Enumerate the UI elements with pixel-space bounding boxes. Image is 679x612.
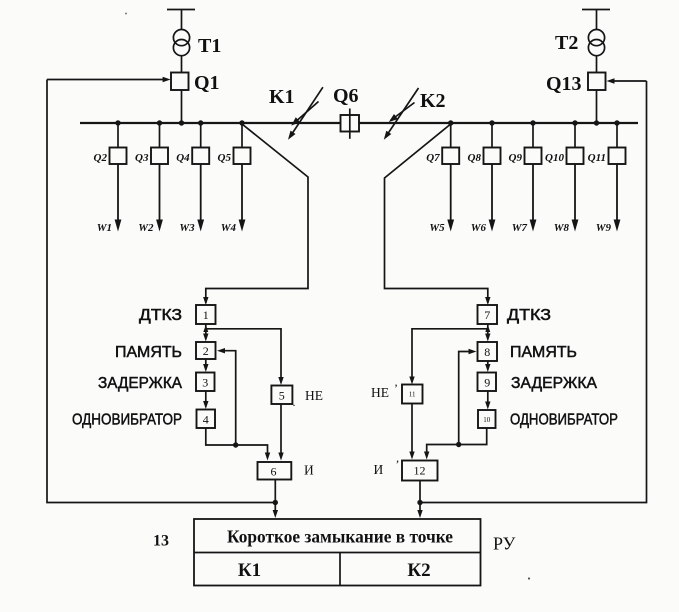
digit 5 — [279, 389, 285, 403]
wire T2 to Q13 — [596, 56, 598, 73]
transformer T1 — [173, 29, 189, 55]
block 12 AND — [402, 461, 438, 481]
svg-text:ОДНОВИБРАТОР: ОДНОВИБРАТОР — [510, 412, 618, 429]
digit 7 — [484, 308, 490, 322]
digit 4 — [203, 413, 209, 427]
svg-text:K2: K2 — [420, 90, 446, 112]
svg-text:7: 7 — [484, 308, 490, 322]
transformer T2 — [588, 29, 604, 55]
feedback wire to block 2 — [217, 348, 236, 445]
branch to block 5 — [206, 329, 284, 385]
svg-text:K1: K1 — [269, 86, 295, 108]
block 7 DTKZ — [478, 305, 498, 324]
wire 7 to 8 — [485, 324, 490, 342]
fault arrow K1a — [288, 87, 323, 140]
switch Q8 — [484, 148, 501, 165]
label Q1 — [194, 72, 220, 94]
label PAMYAT left — [115, 344, 182, 361]
arrow into RU left — [273, 503, 278, 519]
label Q6 — [333, 85, 359, 107]
digit 11 — [409, 391, 416, 399]
feeder stub Q4 — [200, 123, 202, 148]
label W6 — [471, 222, 487, 234]
svg-text:2: 2 — [203, 344, 209, 358]
svg-text:И: И — [374, 462, 384, 477]
tick NE right — [394, 381, 398, 395]
feeder line W9 — [614, 164, 621, 232]
feedback wire to block 8 — [459, 349, 477, 445]
junction Q2-bus — [115, 120, 120, 125]
block 4 ODNOVIBRATOR — [197, 410, 216, 429]
feeder stub Q9 — [532, 123, 534, 148]
label Q9 — [509, 152, 523, 164]
label K1 — [269, 86, 295, 108]
digit 8 — [484, 345, 490, 359]
label AND right — [374, 462, 384, 477]
label PAMYAT right — [510, 344, 577, 361]
wire 3 to 4 — [203, 391, 208, 409]
trip wire into Q1 — [47, 77, 171, 82]
wire 8 to 9 — [485, 361, 490, 372]
svg-text:Q13: Q13 — [546, 73, 582, 95]
svg-text:W3: W3 — [179, 222, 195, 234]
cell K2 — [407, 560, 430, 581]
branch to block 11 — [409, 329, 488, 385]
junction Q8-bus — [489, 120, 494, 125]
svg-text:W6: W6 — [471, 222, 487, 234]
feeder line W1 — [115, 164, 122, 232]
junction feedback — [233, 442, 238, 447]
switch Q9 — [525, 148, 542, 165]
fault arrow K2a — [384, 88, 419, 140]
junction Q5-bus — [239, 120, 244, 125]
svg-text:1: 1 — [203, 308, 209, 322]
svg-text:4: 4 — [203, 413, 209, 427]
svg-text:W8: W8 — [554, 222, 570, 234]
svg-text:Q11: Q11 — [588, 152, 606, 164]
svg-text:Q9: Q9 — [509, 152, 523, 164]
feeder line W6 — [489, 164, 496, 232]
feeder stub Q3 — [159, 123, 161, 148]
label W3 — [179, 222, 195, 234]
label K2 — [420, 90, 446, 112]
title korotkoe — [227, 527, 453, 547]
tick AND right — [396, 457, 400, 471]
feeder line W7 — [530, 164, 537, 232]
svg-text:Q4: Q4 — [176, 152, 190, 164]
svg-text:Q2: Q2 — [94, 152, 108, 164]
label Q2 — [94, 152, 108, 164]
svg-text:W4: W4 — [221, 222, 237, 234]
block 9 ZADERZHKA — [478, 373, 497, 392]
annunciator box RU — [194, 519, 481, 586]
digit 1 — [203, 308, 209, 322]
svg-text:T1: T1 — [198, 35, 221, 57]
switch Q7 — [442, 148, 459, 165]
digit 6 — [271, 465, 277, 479]
wire 1 to 2 — [203, 324, 208, 342]
label AND left — [304, 463, 314, 478]
svg-text:9: 9 — [484, 376, 490, 390]
svg-text:ЗАДЕРЖКА: ЗАДЕРЖКА — [98, 375, 183, 392]
switch Q2 — [110, 148, 127, 165]
junction Q9-bus — [530, 120, 535, 125]
feeder stub Q11 — [616, 123, 618, 148]
wire 12 down — [419, 481, 421, 503]
feeder line W4 — [239, 164, 246, 232]
wire 5 to 6 — [278, 404, 283, 461]
svg-text:’: ’ — [396, 457, 400, 471]
label 13 — [153, 533, 169, 550]
switch Q11 — [609, 148, 626, 165]
block 8 PAMYAT — [478, 342, 498, 361]
svg-text:T2: T2 — [555, 32, 578, 54]
switch Q5 — [234, 148, 251, 165]
svg-text:12: 12 — [414, 464, 426, 478]
feeder line W3 — [197, 164, 204, 232]
label Q11 — [588, 152, 606, 164]
svg-text:ДТКЗ: ДТКЗ — [507, 307, 551, 324]
junction Q11-bus — [614, 120, 619, 125]
svg-text:W7: W7 — [512, 222, 528, 234]
wire 9 to 10 — [485, 391, 490, 410]
digit 10 — [483, 416, 491, 424]
svg-text:6: 6 — [271, 465, 277, 479]
label W5 — [429, 222, 445, 234]
fault arrow K1b — [291, 102, 318, 126]
trip wire into Q13 — [607, 78, 647, 83]
left trip rail — [47, 80, 275, 503]
label W1 — [97, 222, 112, 234]
junction RU left — [273, 500, 278, 505]
right trip rail — [420, 81, 647, 503]
label W7 — [512, 222, 528, 234]
supply bar above T1 — [167, 10, 195, 30]
feeder stub Q10 — [574, 123, 576, 148]
feeder line W5 — [447, 164, 454, 232]
tap wire to block 7 — [385, 124, 491, 305]
wire 10 output — [424, 428, 487, 460]
fault arrow K2b — [389, 103, 415, 123]
label W2 — [138, 222, 154, 234]
digit 3 — [202, 376, 208, 390]
feeder stub Q2 — [117, 123, 119, 148]
bus-tie breaker Q6 — [341, 109, 360, 139]
label Q13 — [546, 73, 582, 95]
wire 2 to 3 — [203, 359, 208, 372]
junction feedback right — [456, 442, 461, 447]
feeder line W2 — [156, 164, 163, 232]
svg-text:НЕ: НЕ — [371, 385, 389, 400]
svg-text:W1: W1 — [97, 222, 112, 234]
svg-text:Q3: Q3 — [135, 152, 149, 164]
svg-text:ПАМЯТЬ: ПАМЯТЬ — [115, 344, 182, 361]
svg-text:5: 5 — [279, 389, 285, 403]
block 6 AND — [258, 462, 292, 480]
tap wire to block 1 — [203, 124, 308, 305]
svg-text:Q8: Q8 — [468, 152, 482, 164]
svg-text:ОДНОВИБРАТОР: ОДНОВИБРАТОР — [72, 412, 182, 429]
digit 2 — [203, 344, 209, 358]
wire Q1 to bus — [181, 90, 183, 123]
svg-text:.: . — [293, 395, 296, 409]
label ZADERZHKA right — [511, 375, 598, 392]
breaker Q13 — [588, 73, 606, 91]
label Q7 — [426, 152, 440, 164]
label Q10 — [545, 152, 564, 164]
junction Q10-bus — [572, 120, 577, 125]
svg-text:8: 8 — [484, 345, 490, 359]
label W9 — [596, 222, 612, 234]
switch Q4 — [192, 148, 209, 165]
digit 9 — [484, 376, 490, 390]
svg-text:Короткое замыкание в точке: Короткое замыкание в точке — [227, 527, 453, 547]
svg-text:W2: W2 — [138, 222, 154, 234]
speck — [125, 13, 530, 580]
label T1 — [198, 35, 221, 57]
svg-text:ЗАДЕРЖКА: ЗАДЕРЖКА — [511, 375, 598, 392]
block 2 PAMYAT — [196, 342, 216, 359]
label W4 — [221, 222, 237, 234]
svg-text:11: 11 — [409, 391, 416, 399]
label NE left — [305, 388, 323, 403]
junction RU right — [417, 500, 422, 505]
label Q3 — [135, 152, 149, 164]
feeder stub Q5 — [241, 123, 243, 148]
junction Q3-bus — [157, 120, 162, 125]
wire 4 output — [206, 428, 270, 461]
wire T1 to Q1 — [181, 56, 183, 73]
block 11 NE — [402, 385, 423, 404]
svg-text:Q6: Q6 — [333, 85, 359, 107]
label ODNOVIBRATOR left — [72, 412, 182, 429]
svg-text:К2: К2 — [407, 560, 430, 581]
label W8 — [554, 222, 570, 234]
switch Q10 — [567, 148, 584, 165]
label DTKZ left — [139, 307, 182, 324]
label ODNOVIBRATOR right — [510, 412, 618, 429]
svg-text:Q1: Q1 — [194, 72, 220, 94]
svg-text:РУ: РУ — [493, 534, 516, 554]
wire Q13 to bus — [596, 90, 598, 123]
svg-text:’: ’ — [394, 381, 398, 395]
svg-text:W5: W5 — [429, 222, 445, 234]
label Q8 — [468, 152, 482, 164]
supply bar above T2 — [582, 10, 610, 30]
feeder stub Q7 — [450, 123, 452, 148]
label RU — [493, 534, 516, 554]
feeder line W8 — [572, 164, 579, 232]
tick NE left — [293, 395, 296, 409]
feeder stub Q8 — [491, 123, 493, 148]
svg-text:ПАМЯТЬ: ПАМЯТЬ — [510, 344, 577, 361]
svg-text:3: 3 — [202, 376, 208, 390]
junction Q1-bus — [179, 120, 184, 125]
svg-text:W9: W9 — [596, 222, 612, 234]
block 3 ZADERZHKA — [196, 373, 215, 392]
block 5 NE — [271, 386, 292, 405]
breaker Q1 — [171, 73, 189, 91]
junction Q13-bus — [594, 120, 599, 125]
svg-text:13: 13 — [153, 533, 169, 550]
block 1 DTKZ — [196, 305, 216, 324]
svg-text:И: И — [304, 463, 314, 478]
svg-text:Q10: Q10 — [545, 152, 564, 164]
svg-text:Q5: Q5 — [218, 152, 232, 164]
label Q4 — [176, 152, 190, 164]
label DTKZ right — [507, 307, 551, 324]
busbar — [80, 122, 638, 124]
junction Q4-bus — [198, 120, 203, 125]
digit 12 — [414, 464, 426, 478]
cell K1 — [238, 560, 261, 581]
block 10 ODNOVIBRATOR — [478, 410, 496, 428]
wire 11 to 12 — [409, 404, 414, 460]
junction Q7-bus — [448, 120, 453, 125]
label T2 — [555, 32, 578, 54]
svg-text:ДТКЗ: ДТКЗ — [139, 307, 182, 324]
svg-text:К1: К1 — [238, 560, 261, 581]
label Q5 — [218, 152, 232, 164]
label NE right — [371, 385, 389, 400]
wire 6 down — [274, 480, 276, 503]
switch Q3 — [151, 148, 168, 165]
svg-text:Q7: Q7 — [426, 152, 440, 164]
arrow into RU right — [417, 503, 422, 519]
label ZADERZHKA left — [98, 375, 183, 392]
svg-text:10: 10 — [483, 416, 491, 424]
svg-text:НЕ: НЕ — [305, 388, 323, 403]
